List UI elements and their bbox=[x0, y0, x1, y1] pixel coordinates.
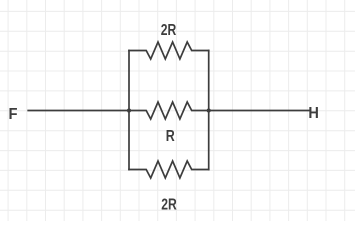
svg-text:R: R bbox=[166, 128, 175, 145]
svg-text:H: H bbox=[308, 105, 319, 122]
svg-text:2R: 2R bbox=[161, 22, 177, 39]
svg-text:F: F bbox=[9, 106, 18, 123]
svg-text:2R: 2R bbox=[161, 197, 177, 214]
